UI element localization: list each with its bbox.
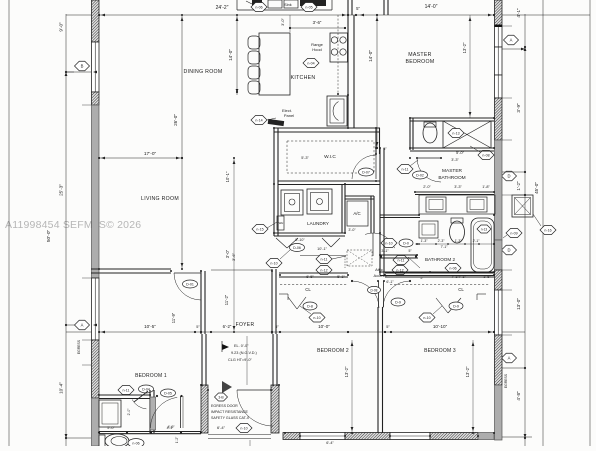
svg-text:BEDROOM 2: BEDROOM 2 — [317, 348, 349, 354]
svg-text:n-11: n-11 — [321, 257, 328, 261]
svg-text:5”: 5” — [356, 6, 360, 11]
svg-text:2’-0”: 2’-0” — [127, 409, 131, 416]
svg-text:n-11: n-11 — [398, 258, 405, 262]
svg-text:13’-0”: 13’-0” — [516, 298, 521, 310]
svg-text:n-13: n-13 — [481, 227, 488, 231]
svg-text:A/C: A/C — [353, 211, 360, 216]
svg-text:6’-4”: 6’-4” — [326, 441, 334, 445]
svg-text:7’-1”: 7’-1” — [441, 245, 448, 249]
svg-text:D-02: D-02 — [416, 173, 424, 177]
svg-text:A11998454 SEFMLS© 2026: A11998454 SEFMLS© 2026 — [5, 219, 141, 231]
svg-text:IMPACT RESISTANCE: IMPACT RESISTANCE — [211, 410, 249, 414]
svg-text:MASTER: MASTER — [408, 52, 431, 58]
svg-text:n-04: n-04 — [307, 61, 314, 65]
svg-text:6’-5”: 6’-5” — [306, 275, 314, 279]
svg-text:10’-4”: 10’-4” — [59, 382, 64, 394]
svg-text:3’-3”: 3’-3” — [454, 185, 462, 189]
svg-text:11’-2”: 11’-2” — [224, 294, 229, 305]
svg-text:14’-0”: 14’-0” — [368, 50, 373, 62]
svg-text:5”: 5” — [408, 249, 411, 253]
svg-text:2’-0”: 2’-0” — [423, 185, 431, 189]
svg-text:1’-8”: 1’-8” — [482, 185, 490, 189]
svg-text:9.23 (N.G.V.D.): 9.23 (N.G.V.D.) — [231, 351, 258, 355]
svg-text:14’-0”: 14’-0” — [425, 4, 438, 10]
svg-text:D-05: D-05 — [164, 391, 172, 395]
svg-text:n-14: n-14 — [255, 118, 262, 122]
svg-text:10’-1”: 10’-1” — [317, 247, 327, 251]
svg-text:n-09: n-09 — [510, 231, 517, 235]
svg-text:n-06: n-06 — [449, 266, 456, 270]
svg-text:1’-2”: 1’-2” — [516, 181, 521, 191]
svg-text:A: A — [510, 37, 513, 42]
svg-text:D-08: D-08 — [371, 288, 378, 292]
svg-text:25’-3”: 25’-3” — [59, 184, 64, 196]
svg-text:3’-9”: 3’-9” — [516, 103, 521, 113]
svg-text:3’-3”: 3’-3” — [451, 158, 459, 162]
svg-text:5’-10”: 5’-10” — [295, 238, 305, 242]
svg-text:5’-3”: 5’-3” — [301, 156, 309, 160]
svg-text:13’-2”: 13’-2” — [344, 366, 349, 377]
svg-text:3’-1”: 3’-1” — [381, 249, 389, 253]
svg-text:Hood: Hood — [312, 47, 322, 52]
svg-text:EGRESS: EGRESS — [504, 373, 508, 388]
svg-text:LIVING ROOM: LIVING ROOM — [141, 196, 179, 202]
svg-text:4’-1”: 4’-1” — [516, 8, 521, 18]
svg-text:D-01: D-01 — [186, 282, 194, 286]
svg-text:n-13: n-13 — [452, 131, 459, 135]
svg-text:4’-8”: 4’-8” — [516, 391, 521, 401]
svg-text:n-05: n-05 — [305, 5, 312, 9]
svg-text:3’-0”: 3’-0” — [281, 17, 285, 25]
svg-text:D-07: D-07 — [362, 170, 370, 174]
svg-text:n-10: n-10 — [313, 316, 320, 320]
svg-text:D: D — [507, 173, 510, 178]
svg-text:2’-1”: 2’-1” — [473, 239, 480, 243]
svg-text:9’-0”: 9’-0” — [59, 22, 64, 32]
svg-text:BATHROOM 2: BATHROOM 2 — [425, 257, 455, 262]
svg-text:13’-2”: 13’-2” — [462, 42, 467, 53]
svg-text:1’-3”: 1’-3” — [421, 239, 428, 243]
svg-text:n-12: n-12 — [320, 268, 327, 272]
svg-text:D-8: D-8 — [307, 304, 313, 308]
svg-text:3’-0”: 3’-0” — [348, 228, 356, 232]
svg-text:WH: WH — [279, 221, 284, 225]
svg-text:CL: CL — [305, 287, 311, 292]
svg-text:n-08: n-08 — [482, 153, 489, 157]
svg-text:D-9: D-9 — [395, 300, 401, 304]
svg-text:D-9: D-9 — [453, 304, 459, 308]
svg-text:n-11: n-11 — [402, 167, 409, 171]
svg-text:6’-2”: 6’-2” — [223, 324, 232, 329]
svg-text:14’-0”: 14’-0” — [228, 49, 233, 61]
svg-text:3’-6”: 3’-6” — [313, 20, 322, 25]
svg-text:Panel: Panel — [284, 113, 294, 118]
svg-text:W.I.C: W.I.C — [324, 154, 336, 160]
svg-text:5’-1”: 5’-1” — [337, 275, 345, 279]
svg-text:A: A — [508, 355, 511, 360]
svg-text:3’-0”: 3’-0” — [225, 249, 230, 258]
svg-text:B: B — [81, 63, 84, 68]
svg-text:D: D — [507, 247, 510, 252]
svg-text:n-06: n-06 — [255, 5, 262, 9]
svg-text:26’-0”: 26’-0” — [173, 114, 178, 126]
svg-text:7’-1”: 7’-1” — [458, 275, 466, 279]
svg-text:n-15: n-15 — [256, 227, 263, 231]
svg-text:KITCHEN: KITCHEN — [291, 75, 316, 81]
svg-text:5’-0”: 5’-0” — [456, 150, 465, 155]
svg-text:n-10: n-10 — [270, 261, 277, 265]
svg-text:CL: CL — [458, 287, 464, 292]
svg-text:24’-2”: 24’-2” — [216, 5, 229, 11]
svg-text:3’-6”: 3’-6” — [231, 252, 236, 261]
svg-text:MASTER: MASTER — [442, 168, 463, 174]
svg-text:10’-10”: 10’-10” — [433, 324, 448, 329]
svg-text:EGRESS DOOR: EGRESS DOOR — [211, 404, 238, 408]
svg-text:10’-5”: 10’-5” — [144, 324, 156, 329]
svg-text:n-10: n-10 — [385, 241, 392, 245]
svg-text:Sink: Sink — [284, 3, 291, 7]
svg-text:Attic: Attic — [375, 267, 383, 272]
svg-text:1’-3”: 1’-3” — [455, 239, 462, 243]
svg-text:50’-0”: 50’-0” — [46, 229, 52, 242]
svg-text:CLG HT=9’-0”: CLG HT=9’-0” — [228, 358, 252, 362]
svg-text:17’-0”: 17’-0” — [144, 151, 157, 157]
svg-text:LAUNDRY: LAUNDRY — [307, 221, 329, 226]
svg-text:6’-4”: 6’-4” — [217, 425, 226, 430]
svg-text:D-06: D-06 — [293, 246, 301, 250]
svg-text:6’-1”: 6’-1” — [386, 280, 394, 284]
svg-text:SAFETY GLASS CAT-II: SAFETY GLASS CAT-II — [211, 416, 249, 420]
svg-text:n-11: n-11 — [123, 388, 130, 392]
svg-text:45’-0”: 45’-0” — [534, 182, 539, 194]
svg-text:BEDROOM: BEDROOM — [406, 59, 435, 65]
svg-text:D-04: D-04 — [142, 387, 150, 391]
svg-text:n-10: n-10 — [240, 426, 247, 430]
svg-text:10’-0”: 10’-0” — [318, 324, 330, 329]
svg-text:A: A — [81, 322, 84, 327]
svg-text:BEDROOM 1: BEDROOM 1 — [135, 373, 167, 379]
svg-text:2’-3”: 2’-3” — [438, 239, 445, 243]
svg-text:D-0: D-0 — [403, 241, 409, 245]
svg-text:n-06: n-06 — [132, 441, 139, 445]
svg-text:11’-9”: 11’-9” — [171, 312, 176, 323]
svg-text:5’-0”: 5’-0” — [107, 426, 115, 430]
svg-text:BEDROOM 3: BEDROOM 3 — [424, 348, 456, 354]
svg-text:13’-2”: 13’-2” — [465, 366, 470, 377]
svg-text:EGRESS: EGRESS — [77, 339, 81, 354]
svg-text:4’-1”: 4’-1” — [167, 426, 174, 430]
svg-text:DINING ROOM: DINING ROOM — [183, 69, 222, 75]
svg-text:1’-2”: 1’-2” — [175, 437, 179, 443]
svg-text:BATHROOM: BATHROOM — [438, 175, 465, 181]
svg-text:10’-1”: 10’-1” — [225, 171, 230, 182]
svg-text:FOYER: FOYER — [236, 322, 255, 328]
svg-text:n-16: n-16 — [544, 228, 551, 232]
svg-text:n-10: n-10 — [423, 316, 430, 320]
svg-text:3-B: 3-B — [218, 395, 224, 399]
